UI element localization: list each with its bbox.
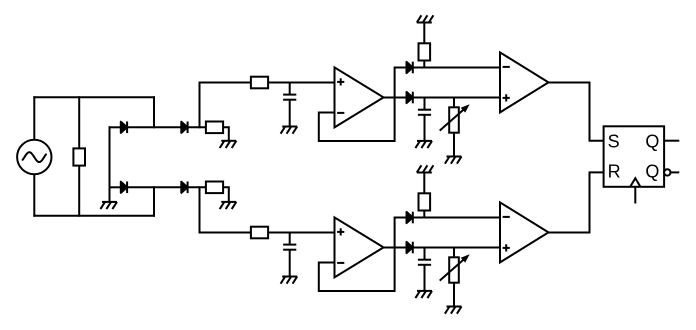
varistor RV1 top lead (453, 98, 455, 107)
wire U1 output (384, 97, 408, 99)
wire D8 to U4 (413, 247, 500, 249)
resistor R7 bottom lead (423, 211, 425, 218)
varistor RV2 top lead (453, 248, 455, 257)
capacitor C2 (418, 110, 431, 115)
wire top rail drop (153, 96, 155, 128)
wire U1 output node vertical (394, 67, 396, 99)
svg-text:S: S (608, 131, 620, 151)
wire R4 to U1 (268, 82, 334, 84)
capacitor C3 (283, 245, 296, 250)
wire R6 to U3 (268, 232, 334, 234)
wire upper row right (188, 126, 206, 128)
diode D5 (407, 62, 413, 74)
op-amp U1 (335, 67, 384, 127)
varistor RV1 bottom lead (453, 134, 455, 157)
capacitor C3 bottom lead (289, 250, 291, 277)
svg-text:R: R (608, 162, 621, 182)
resistor R7 top lead (423, 173, 425, 194)
wire Qbar output (671, 171, 680, 173)
capacitor C2 bottom lead (424, 115, 426, 141)
svg-text:Q: Q (645, 162, 659, 182)
inverting bubble (664, 169, 670, 175)
diode D6 (407, 92, 413, 104)
resistor R3 (206, 182, 223, 194)
wire U4 output to R (549, 172, 604, 232)
ground C1 (281, 127, 298, 134)
wire center tap vertical (109, 126, 111, 202)
wire D5 to U2 (413, 67, 500, 69)
capacitor C1 top lead (289, 83, 291, 95)
resistor R5 (419, 43, 431, 60)
varistor RV2 bottom lead (453, 284, 455, 307)
diode D3 (121, 182, 127, 194)
ground RV2 (445, 307, 462, 314)
wire U1 feedback (319, 97, 395, 142)
wire U3 output (384, 247, 408, 249)
diode D8 (407, 242, 413, 254)
label Qbar (645, 162, 659, 182)
wire V1 bottom lead (33, 174, 35, 217)
AC source V1 (17, 140, 51, 174)
wire top rail (33, 96, 155, 98)
wire bottom branch dropper (200, 186, 251, 232)
label Q (645, 131, 659, 151)
comparator U2 (500, 52, 549, 112)
wire lower row left (109, 186, 121, 188)
resistor R7 (419, 193, 431, 210)
label R (608, 162, 621, 182)
label S (608, 131, 620, 151)
ground C3 (281, 277, 298, 284)
resistor R1 top lead (78, 96, 80, 148)
wire upper diode row lead (395, 67, 407, 69)
svg-text:Q: Q (645, 131, 659, 151)
comparator U4 (500, 202, 549, 262)
resistor R4 (251, 77, 268, 89)
wire top branch riser (200, 83, 251, 129)
capacitor C1 (283, 95, 296, 100)
varistor RV2 (440, 255, 469, 282)
clock lead (634, 187, 636, 204)
wire upper diode row lead 2 (395, 217, 407, 219)
capacitor C3 top lead (289, 233, 291, 245)
resistor R1 (73, 148, 85, 165)
diode D4 (181, 182, 187, 194)
ground R3 (220, 202, 237, 209)
wire U3 output node vertical (394, 217, 396, 249)
resistor R5 top lead (423, 23, 425, 44)
ground R2 (220, 141, 237, 148)
diode D1 (121, 122, 127, 134)
wire U2 output to S (549, 83, 604, 141)
wire D6 to U2 (413, 97, 500, 99)
wire R2 to ground (223, 127, 229, 141)
capacitor C2 top lead (424, 98, 426, 110)
resistor R2 (206, 122, 223, 134)
wire V1 top lead (33, 96, 35, 140)
wire lower row right (188, 186, 206, 188)
diode D7 (407, 212, 413, 224)
capacitor C4 (418, 260, 431, 265)
wire D7 to U4 (413, 217, 500, 219)
ground center tap (100, 202, 117, 209)
clock edge triangle (630, 178, 640, 187)
resistor R5 bottom lead (423, 61, 425, 68)
capacitor C1 bottom lead (289, 100, 291, 127)
ground RV1 (445, 157, 462, 164)
capacitor C4 top lead (424, 248, 426, 260)
wire Q output (664, 140, 679, 142)
wire lower row mid (127, 186, 181, 188)
power chassis bottom (417, 165, 434, 172)
op-amp U3 (335, 217, 384, 277)
wire bottom rail (33, 215, 155, 217)
wire U3 feedback (319, 247, 395, 292)
capacitor C4 bottom lead (424, 265, 426, 291)
resistor R1 bottom lead (78, 166, 80, 217)
wire bottom rail rise (153, 186, 155, 216)
power chassis top (417, 15, 434, 22)
varistor RV1 (440, 105, 469, 133)
resistor R6 (251, 227, 268, 239)
wire upper row left (109, 126, 121, 128)
ground C2 (415, 141, 432, 148)
flip-flop U5 box (604, 126, 665, 187)
ground C4 (415, 291, 432, 298)
wire upper row mid (127, 126, 181, 128)
diode D2 (181, 122, 187, 134)
wire R3 to ground (223, 187, 229, 202)
